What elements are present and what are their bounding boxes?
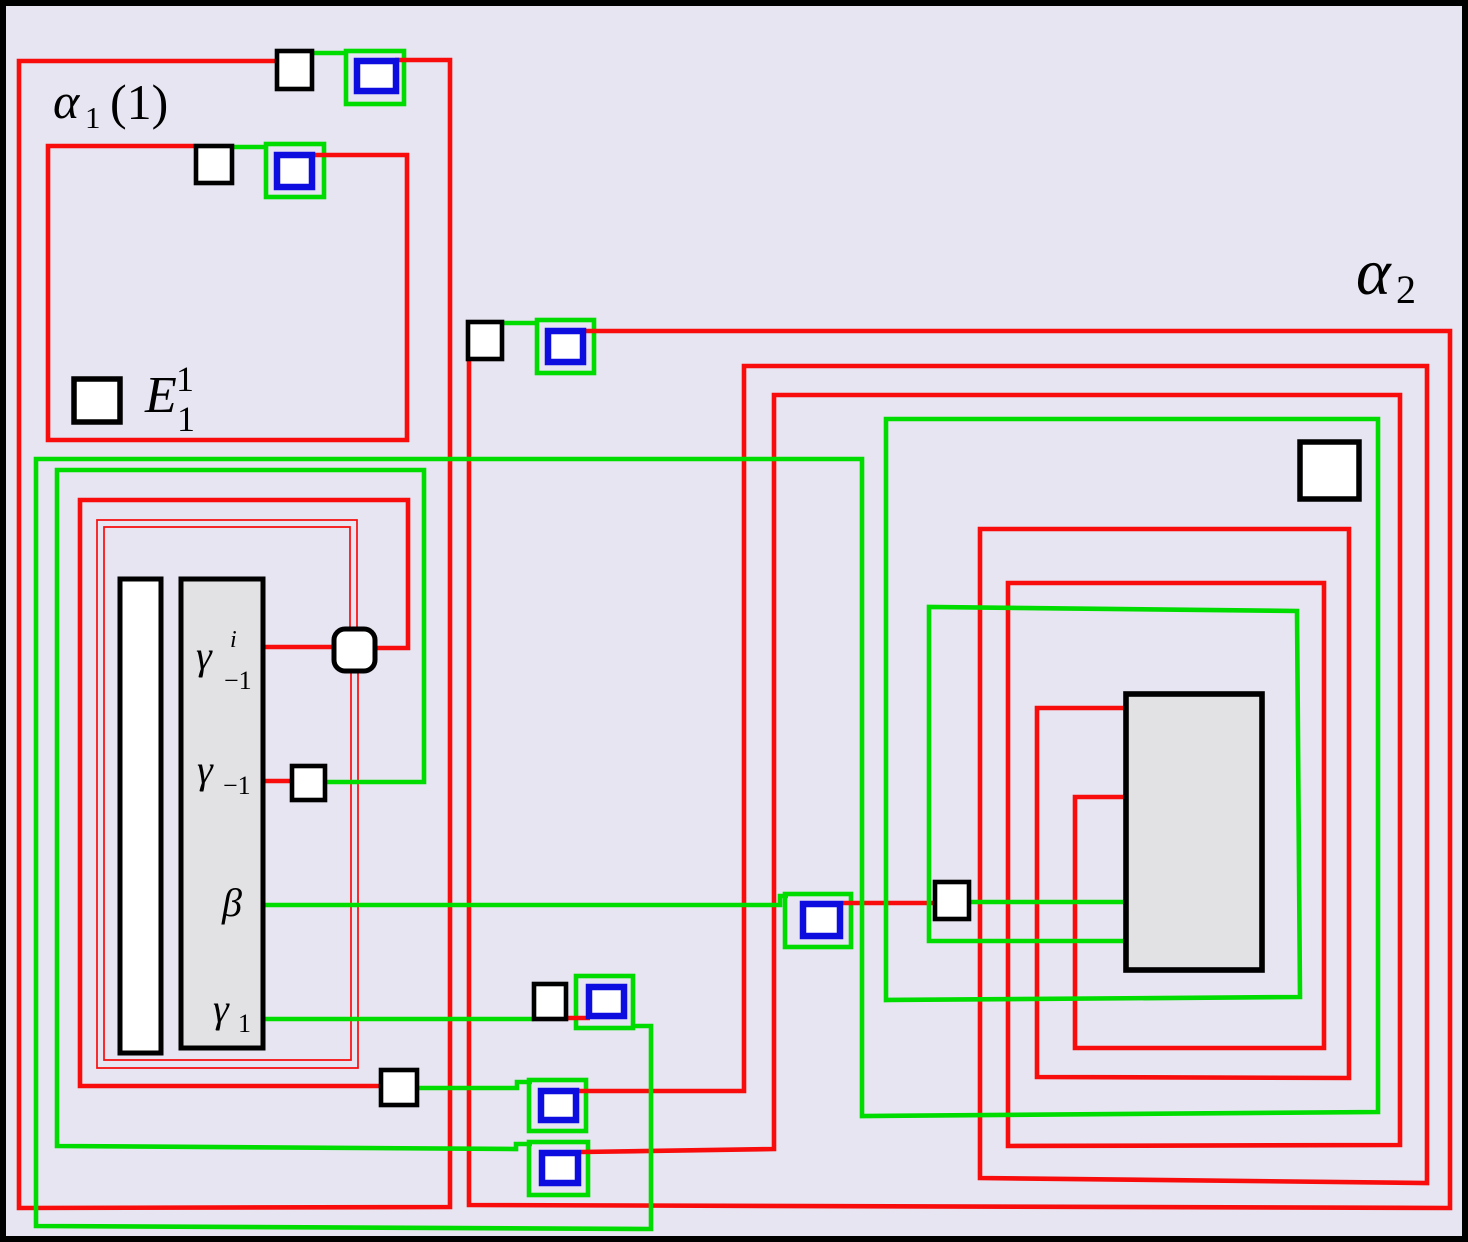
blue box B3: [548, 331, 583, 362]
black square S2: [196, 146, 232, 183]
blue box B7 beta: [803, 904, 840, 936]
tall white box: [120, 579, 161, 1053]
svg-text:2: 2: [1396, 267, 1416, 312]
black square S4 gamma1: [534, 984, 566, 1019]
wire thin double red ribbon inner strand: [104, 527, 351, 1060]
green outline around blue box B4: [576, 976, 633, 1028]
wire green link pair1: [314, 51, 348, 56]
svg-text:(1): (1): [110, 74, 168, 130]
wire green link pair3: [504, 321, 539, 326]
black square S1: [277, 51, 312, 89]
black square E11: [74, 379, 120, 422]
svg-text:α: α: [1356, 236, 1392, 309]
wire red blue7 to square6 beta: [843, 901, 933, 906]
wire green gamma1: [265, 1017, 534, 1022]
svg-text:−1: −1: [223, 771, 251, 800]
wire red spiral 2: [581, 395, 1400, 1152]
blue box B6: [542, 1153, 578, 1183]
wire red big loop alpha2: [469, 331, 1450, 1208]
wire red gamma-1 stub: [265, 779, 292, 784]
black square S3: [468, 322, 502, 359]
wire red stub square4 to blue4: [568, 1016, 590, 1021]
svg-text:i: i: [230, 627, 237, 653]
svg-text:α: α: [53, 73, 81, 129]
green outline around blue box B5: [529, 1080, 586, 1131]
blue box B4: [589, 987, 624, 1016]
black square S5 gamma-1: [292, 766, 325, 800]
wire green square7 to pair5: [419, 1082, 532, 1088]
svg-text:1: 1: [238, 1009, 251, 1038]
blue box B1: [357, 61, 396, 91]
svg-text:1: 1: [85, 100, 101, 135]
wire red spiral 1: [579, 366, 1427, 1183]
black square S6 beta: [935, 882, 969, 919]
wire red gamma-1i stub: [265, 645, 336, 650]
green outline around blue box B1: [346, 51, 404, 104]
green outline around blue box B7: [785, 894, 851, 947]
wire red left complex loop: [80, 500, 408, 1086]
svg-text:1: 1: [176, 359, 194, 399]
wire thin double red ribbon outer strand: [97, 520, 358, 1068]
big white square top right: [1300, 442, 1359, 499]
svg-text:1: 1: [177, 399, 195, 439]
svg-text:β: β: [221, 880, 242, 925]
svg-text:γ: γ: [213, 986, 230, 1031]
wire green beta long: [265, 896, 788, 905]
svg-text:γ: γ: [197, 747, 214, 792]
svg-text:−1: −1: [224, 666, 252, 695]
wire green gamma-1 loop: [57, 470, 532, 1149]
squircle operator: [334, 629, 375, 671]
blue box B2: [277, 155, 312, 187]
wire green square6 to gray box: [971, 900, 1126, 905]
wire red loop alpha1 outer: [19, 60, 450, 1208]
black square S7 bottom: [381, 1070, 417, 1105]
wire green big spiral: [36, 419, 1378, 1229]
svg-text:E: E: [144, 367, 177, 424]
green outline around blue box B3: [537, 320, 594, 373]
wire green link pair2: [234, 145, 268, 150]
blue box B5: [541, 1091, 576, 1120]
green outline around blue box B2: [266, 144, 324, 197]
svg-text:γ: γ: [196, 633, 213, 678]
green outline around blue box B6: [529, 1142, 588, 1195]
wire red loop E11: [48, 146, 407, 440]
central gray box: [1126, 694, 1262, 970]
tall gray box (gamma/beta ports): [181, 579, 263, 1048]
